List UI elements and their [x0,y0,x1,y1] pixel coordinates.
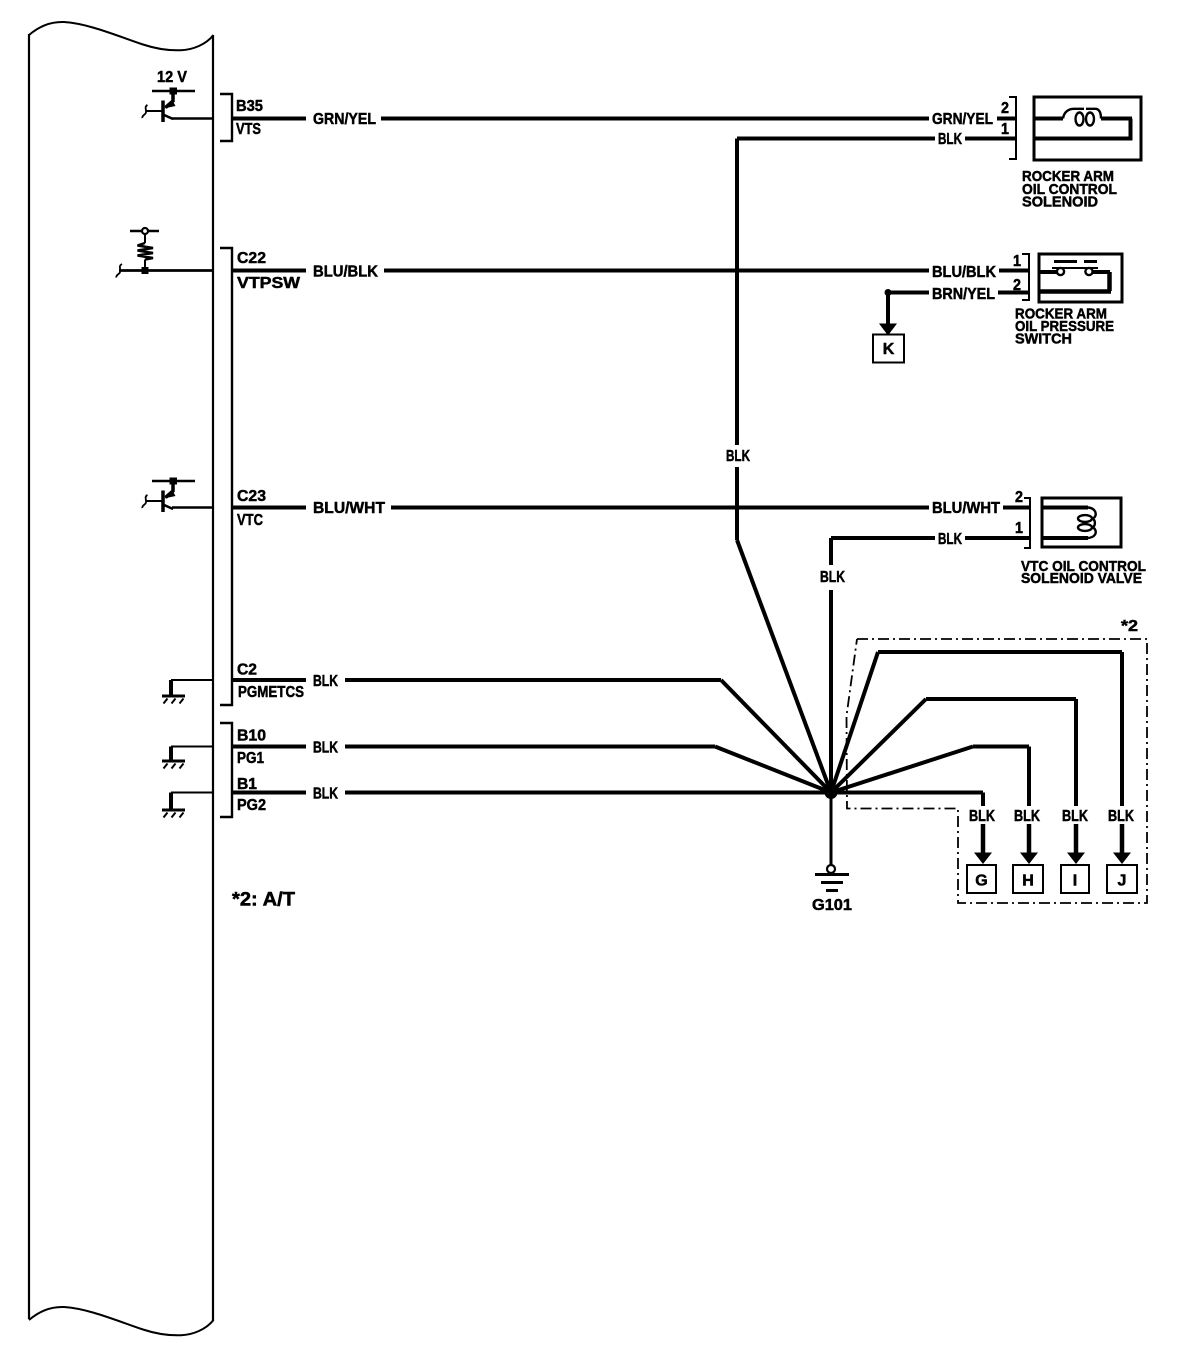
connector J box [1107,865,1137,893]
rocker arm oil control solenoid box [1034,97,1141,160]
svg-text:1: 1 [1013,253,1021,270]
wire cut mark at C22 [116,264,122,278]
svg-text:H: H [1022,873,1034,890]
svg-text:PGMETCS: PGMETCS [238,684,304,701]
svg-text:SWITCH: SWITCH [1015,331,1072,348]
ECM/PCM left edge [28,34,30,1319]
svg-text:SOLENOID VALVE: SOLENOID VALVE [1021,570,1142,587]
dash-dot A/T option box *2 [847,639,1148,903]
ground hatches B1 [164,813,184,818]
solenoid L1 coil hump 1 [1063,109,1084,119]
svg-text:C22: C22 [237,250,266,267]
solenoid L1 coil hump 2 [1086,109,1101,119]
VTC coil L2 loop 2 [1078,524,1092,531]
wire cut mark at Q(VTC) base [142,495,147,508]
ground drop B10 [169,747,173,761]
wire BLK from VTC solenoid pin1 [831,536,1030,540]
ground bar B10 [162,760,185,763]
rocker arm oil control solenoid connector bracket [1009,97,1016,159]
transistor Q(VTC) base lead [146,500,162,502]
transistor Q(VTC) emitter [166,484,174,498]
12V supply bar B35 [152,90,195,93]
switch S1 blade segment 1 [1054,260,1077,263]
transistor Q(VTS) emitter [166,94,174,108]
connector I box [1061,865,1089,893]
svg-text:C23: C23 [237,488,266,505]
ground bar C2 [162,695,185,698]
resistor R(VTPSW) lead top [144,234,146,243]
VTC coil L2 loop 1 [1078,515,1092,522]
junction dot BRN/YEL [885,289,892,296]
svg-text:BLK: BLK [938,531,962,548]
solenoid L1 coil loop 1 [1076,113,1084,126]
junction square C23 [170,478,178,485]
solenoid L1 right drop [1129,119,1133,139]
diagonal to J run [831,652,878,793]
pull-up terminal circle C22 [142,228,148,234]
pull-up bar C22 [130,230,159,233]
switch S1 right contact [1085,268,1092,275]
VTC oil control solenoid valve box [1042,498,1121,547]
svg-text:PG1: PG1 [237,750,264,767]
transistor Q(VTS) base bar [161,101,165,123]
connector G box [967,865,996,893]
wire PG1 pin B10 BLK [232,745,715,749]
rocker arm oil pressure switch connector bracket [1022,254,1029,300]
svg-text:K: K [883,341,895,358]
svg-text:2: 2 [1013,277,1021,294]
G101 terminal circle [827,865,835,873]
switch S1 right drop [1107,272,1112,291]
svg-text:*2: A/T: *2: A/T [232,890,295,911]
wire VTS pin B35 GRN/YEL (left run) [172,117,213,120]
arrow wire G [981,824,986,853]
svg-text:BLK: BLK [313,786,338,803]
transistor Q(VTS) collector [163,115,173,120]
svg-text:GRN/YEL: GRN/YEL [932,111,993,128]
connector bracket C22/C23/C2 [220,248,232,705]
svg-text:B1: B1 [237,776,257,793]
svg-text:G: G [975,873,987,890]
svg-text:BLK: BLK [313,740,338,757]
ground stub B10 [171,746,213,748]
vertical BLK wire (rocker solenoid ground path) [735,139,739,541]
solenoid L1 coil lead-in [1034,117,1063,121]
VTC coil L2 arc middle [1092,519,1095,528]
switch S1 blade segment 2 [1084,260,1097,263]
arrowhead H [1020,853,1038,865]
svg-text:VTS: VTS [236,121,261,138]
wire H run [973,747,1029,807]
diagonal to H run [831,747,973,793]
VTC coil L2 bottom lead [1042,536,1088,540]
svg-text:BLK: BLK [969,808,995,825]
switch S1 left contact [1057,268,1064,275]
diagonal C2 to ground node [721,680,831,793]
ECM/PCM right edge [212,35,214,1321]
wire PGMETCS pin C2 BLK [232,678,721,682]
12V-rail bar C23 [152,480,195,483]
svg-text:J: J [1118,873,1127,890]
wire BRN/YEL branch [888,291,1029,295]
svg-text:BLU/WHT: BLU/WHT [932,500,1000,517]
wire PG2 pin B1 BLK [232,791,831,795]
VTC oil control solenoid valve connector bracket [1024,498,1030,548]
transistor Q(VTS) emitter arrow [164,101,176,109]
ground stub B1 [171,792,213,794]
svg-text:1: 1 [1015,520,1023,537]
arrow into K [879,324,897,336]
svg-text:GRN/YEL: GRN/YEL [313,111,376,128]
arrow wire I [1074,824,1079,853]
arrow wire H [1027,824,1032,853]
transistor Q(VTS) base lead [146,110,162,112]
vertical BLK wire (VTC solenoid ground path) [829,538,833,793]
switch S1 bottom return [1039,289,1111,294]
VTC coil L2 top lead [1042,506,1088,510]
solenoid L1 coil loop 2 [1086,113,1094,126]
svg-text:VTPSW: VTPSW [237,275,301,292]
ground node junction dot [825,786,838,799]
12V junction square B35 [170,88,178,95]
svg-text:I: I [1073,873,1077,890]
svg-text:B35: B35 [236,98,263,115]
svg-text:*2: *2 [1121,618,1138,635]
svg-text:SOLENOID: SOLENOID [1022,194,1098,211]
wire to connector K [886,293,890,325]
svg-text:BLU/BLK: BLU/BLK [932,264,996,281]
connector bracket B35/VTS [220,94,232,141]
arrowhead J [1113,853,1131,865]
ground stub C2 [171,679,213,681]
svg-text:BLU/WHT: BLU/WHT [313,500,385,517]
wire I run [926,699,1076,806]
transistor Q(VTC) collector [163,505,173,510]
ground drop B1 [169,793,173,810]
switch S1 blade bar [1052,267,1098,269]
transistor Q(VTC) base bar [161,491,165,513]
diagonal to I run [831,699,926,793]
connector H box [1013,865,1043,893]
resistor R(VTPSW) zigzag [138,243,154,260]
wire VTPSW pin C22 BLU/BLK [119,269,213,272]
diagonal BLK to ground node [737,540,831,793]
svg-text:BLK: BLK [938,131,962,148]
rocker arm oil pressure switch box [1039,254,1122,302]
ground hatches C2 [164,699,184,704]
svg-text:1: 1 [1001,121,1009,138]
VTC coil L2 arc bottom [1088,528,1096,539]
VTC coil L2 arc top [1088,508,1096,519]
arrowhead G [974,853,992,865]
wire J run [878,652,1122,806]
svg-text:B10: B10 [237,728,266,745]
wire cut mark at Q(VTS) base [142,105,147,118]
solenoid L1 coil lead-out [1101,117,1132,121]
svg-text:BLK: BLK [313,673,338,690]
ECM/PCM torn bottom edge [29,1307,214,1335]
connector bracket B10/B1 [220,723,232,817]
G101 ground bar 1 [815,873,849,876]
solenoid L1 bottom return [1034,137,1133,141]
svg-text:BLK: BLK [1108,808,1134,825]
svg-text:BRN/YEL: BRN/YEL [932,286,995,303]
transistor Q(VTC) emitter arrow [164,491,176,499]
ground bar B1 [162,809,185,812]
svg-text:PG2: PG2 [237,797,266,814]
svg-text:2: 2 [1001,100,1009,117]
svg-text:VTC: VTC [237,512,263,529]
switch S1 lead-in [1039,270,1057,274]
wire ground node to G connector [831,793,983,807]
junction dot C22 [142,267,149,274]
svg-text:BLU/BLK: BLU/BLK [313,264,378,281]
svg-text:12 V: 12 V [157,69,187,86]
wire VTC pin C23 BLU/WHT [172,506,213,509]
resistor R(VTPSW) lead bottom [144,260,146,271]
svg-text:BLK: BLK [726,448,750,465]
svg-text:BLK: BLK [820,569,845,586]
ground hatches B10 [164,764,184,769]
svg-text:BLK: BLK [1014,808,1040,825]
svg-text:2: 2 [1015,489,1023,506]
svg-text:G101: G101 [812,897,852,914]
arrowhead I [1067,853,1085,865]
connector K box [873,335,904,363]
svg-text:C2: C2 [237,662,257,679]
arrow wire J [1120,824,1125,853]
wire BLK from rocker solenoid pin1 [737,137,1016,141]
G101 ground bar 3 [826,889,838,892]
wire ground node to G101 [830,793,833,866]
ground drop C2 [169,680,173,695]
svg-text:BLK: BLK [1062,808,1088,825]
diagonal B10 to ground node [715,747,831,793]
switch S1 right lead [1093,270,1111,274]
ECM/PCM torn top edge [29,22,214,50]
G101 ground bar 2 [821,881,843,884]
